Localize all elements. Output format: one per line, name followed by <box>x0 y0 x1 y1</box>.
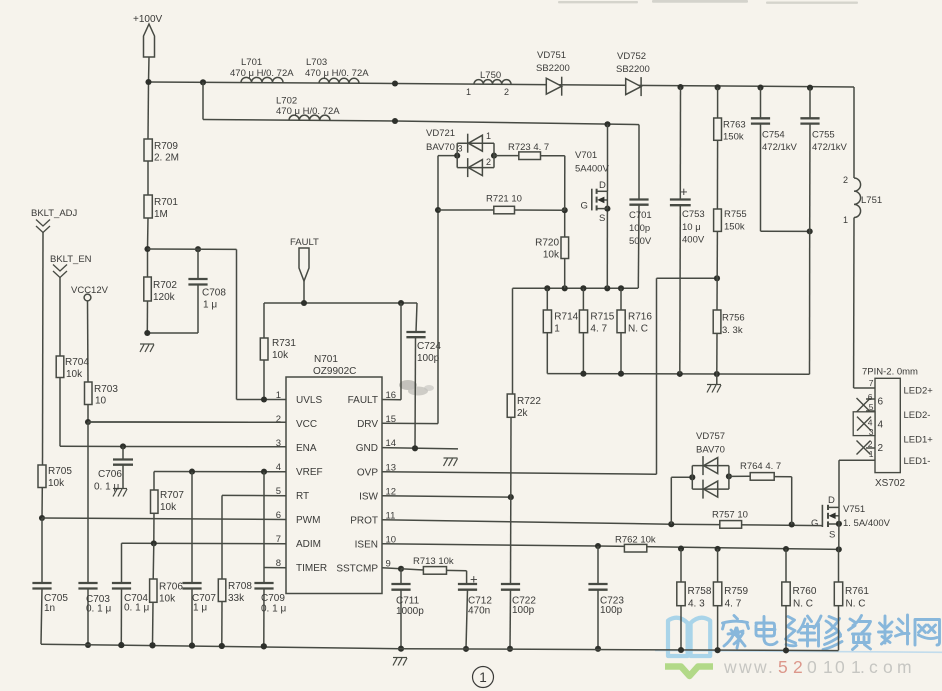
svg-text:R760: R760 <box>793 586 817 597</box>
svg-text:VCC: VCC <box>296 419 317 430</box>
svg-text:100p: 100p <box>417 353 440 364</box>
svg-text:C708: C708 <box>202 288 226 299</box>
svg-text:5: 5 <box>869 402 874 412</box>
svg-text:R762 10k: R762 10k <box>615 535 656 546</box>
svg-text:C711: C711 <box>396 596 420 607</box>
svg-text:4: 4 <box>878 420 884 431</box>
svg-text:VREF: VREF <box>296 467 323 478</box>
svg-text:3: 3 <box>869 427 874 437</box>
svg-text:FAULT: FAULT <box>348 395 378 406</box>
svg-text:LED1+: LED1+ <box>904 435 934 446</box>
svg-text:+: + <box>470 572 478 587</box>
svg-text:ISEN: ISEN <box>355 539 378 550</box>
svg-text:C706: C706 <box>98 469 122 480</box>
svg-text:3: 3 <box>458 144 463 154</box>
svg-text:1: 1 <box>869 449 874 459</box>
svg-text:BKLT_EN: BKLT_EN <box>50 254 92 265</box>
svg-text:N. C: N. C <box>628 324 648 335</box>
svg-text:FAULT: FAULT <box>290 237 319 248</box>
svg-text:10k: 10k <box>160 502 177 513</box>
svg-text:R714: R714 <box>554 312 578 323</box>
svg-text:R715: R715 <box>590 312 614 323</box>
svg-text:R722: R722 <box>517 396 541 407</box>
svg-text:10k: 10k <box>272 350 289 361</box>
svg-text:470 μ H/0. 72A: 470 μ H/0. 72A <box>230 68 294 79</box>
svg-text:UVLS: UVLS <box>296 395 322 406</box>
svg-text:4. 3: 4. 3 <box>688 599 705 610</box>
svg-text:+: + <box>680 184 688 199</box>
svg-text:G: G <box>811 518 818 529</box>
svg-text:472/1kV: 472/1kV <box>762 142 798 153</box>
svg-text:R761: R761 <box>845 586 869 597</box>
svg-text:N701: N701 <box>314 354 338 365</box>
svg-text:VD757: VD757 <box>696 431 725 442</box>
svg-text:R763: R763 <box>723 120 746 131</box>
svg-text:ENA: ENA <box>296 443 317 454</box>
svg-text:1 μ: 1 μ <box>203 300 217 311</box>
svg-text:1: 1 <box>479 670 487 685</box>
svg-text:7PIN-2. 0mm: 7PIN-2. 0mm <box>862 367 918 378</box>
svg-text:w: w <box>753 657 767 677</box>
svg-text:L750: L750 <box>480 70 501 81</box>
svg-text:400V: 400V <box>682 235 705 246</box>
svg-text:S: S <box>599 213 605 224</box>
svg-text:2: 2 <box>868 439 873 449</box>
svg-text:R723 4. 7: R723 4. 7 <box>508 142 549 153</box>
svg-text:ADIM: ADIM <box>296 539 321 550</box>
svg-text:0: 0 <box>807 657 817 677</box>
svg-text:0. 1 μ: 0. 1 μ <box>124 603 149 614</box>
svg-text:LED2+: LED2+ <box>904 386 934 397</box>
svg-text:DRV: DRV <box>357 419 378 430</box>
svg-text:+100V: +100V <box>133 14 163 25</box>
svg-text:1: 1 <box>486 131 491 141</box>
svg-text:472/1kV: 472/1kV <box>812 142 848 153</box>
svg-text:VD721: VD721 <box>426 128 455 139</box>
svg-text:VD751: VD751 <box>537 50 566 61</box>
svg-text:1 μ: 1 μ <box>193 603 207 614</box>
svg-text:4. 7: 4. 7 <box>725 599 742 610</box>
svg-text:4. 7: 4. 7 <box>590 324 607 335</box>
svg-text:1M: 1M <box>154 209 168 220</box>
svg-text:R704: R704 <box>65 357 89 368</box>
svg-text:5: 5 <box>778 657 788 677</box>
svg-text:7: 7 <box>869 378 874 388</box>
svg-text:VD752: VD752 <box>617 51 646 62</box>
svg-text:2: 2 <box>276 414 281 425</box>
svg-text:R709: R709 <box>154 141 178 152</box>
svg-text:R703: R703 <box>94 384 118 395</box>
svg-text:w: w <box>738 657 752 677</box>
svg-text:LED1-: LED1- <box>904 456 931 467</box>
svg-text:LED2-: LED2- <box>904 410 931 421</box>
svg-text:R705: R705 <box>48 466 72 477</box>
svg-text:1: 1 <box>466 87 471 97</box>
svg-text:2: 2 <box>793 657 803 677</box>
svg-text:1: 1 <box>554 324 560 335</box>
svg-text:D: D <box>828 495 835 506</box>
svg-text:10: 10 <box>95 396 107 407</box>
svg-text:R713 10k: R713 10k <box>413 556 454 567</box>
svg-text:OZ9902C: OZ9902C <box>313 366 356 377</box>
svg-text:100p: 100p <box>600 605 623 616</box>
svg-text:L703: L703 <box>306 57 327 68</box>
svg-text:R716: R716 <box>628 312 652 323</box>
svg-text:5A400V: 5A400V <box>575 164 609 175</box>
svg-text:6: 6 <box>878 397 884 408</box>
svg-text:PWM: PWM <box>296 515 320 526</box>
svg-text:10k: 10k <box>66 369 83 380</box>
svg-text:w: w <box>723 657 737 677</box>
svg-text:.: . <box>860 657 865 677</box>
svg-text:V701: V701 <box>575 150 597 161</box>
svg-text:SB2200: SB2200 <box>616 64 650 75</box>
svg-text:10k: 10k <box>543 250 560 261</box>
svg-text:0. 1 μ: 0. 1 μ <box>261 604 286 615</box>
svg-text:1: 1 <box>843 215 848 225</box>
svg-text:500V: 500V <box>629 236 652 247</box>
svg-text:C753: C753 <box>682 209 705 220</box>
svg-text:BAV70: BAV70 <box>426 142 455 153</box>
svg-text:R764 4. 7: R764 4. 7 <box>740 461 781 472</box>
svg-text:C754: C754 <box>762 130 785 141</box>
svg-text:2: 2 <box>878 443 884 454</box>
svg-text:R701: R701 <box>154 197 178 208</box>
svg-text:1n: 1n <box>44 603 55 614</box>
svg-text:C709: C709 <box>261 593 285 604</box>
svg-text:RT: RT <box>296 491 309 502</box>
svg-text:R755: R755 <box>724 209 747 220</box>
svg-text:10 μ: 10 μ <box>682 222 701 233</box>
svg-text:100p: 100p <box>512 605 535 616</box>
svg-text:150k: 150k <box>723 132 744 143</box>
svg-text:c: c <box>869 657 878 677</box>
svg-text:o: o <box>883 657 893 677</box>
svg-text:0. 1 μ: 0. 1 μ <box>86 604 111 615</box>
svg-text:3. 3k: 3. 3k <box>722 325 743 336</box>
svg-text:L701: L701 <box>241 57 262 68</box>
svg-text:3: 3 <box>276 438 281 449</box>
svg-text:N. C: N. C <box>846 599 866 610</box>
svg-text:D: D <box>599 180 606 191</box>
svg-text:R731: R731 <box>272 338 296 349</box>
svg-text:R759: R759 <box>724 586 748 597</box>
svg-text:OVP: OVP <box>357 467 378 478</box>
svg-text:R757 10: R757 10 <box>712 510 748 521</box>
svg-text:R707: R707 <box>160 490 184 501</box>
svg-text:L702: L702 <box>276 96 297 107</box>
svg-text:470 μ H/0. 72A: 470 μ H/0. 72A <box>276 106 340 117</box>
svg-text:R720: R720 <box>535 238 559 249</box>
svg-text:2. 2M: 2. 2M <box>154 153 179 164</box>
svg-text:2: 2 <box>843 175 848 185</box>
svg-text:R758: R758 <box>688 586 712 597</box>
svg-text:BKLT_ADJ: BKLT_ADJ <box>31 208 78 219</box>
svg-text:BAV70: BAV70 <box>696 445 725 456</box>
svg-text:470n: 470n <box>468 606 490 617</box>
svg-text:TIMER: TIMER <box>296 563 327 574</box>
svg-text:m: m <box>897 657 912 677</box>
svg-text:10k: 10k <box>159 594 176 605</box>
svg-text:R708: R708 <box>228 581 252 592</box>
svg-text:R721 10: R721 10 <box>486 194 522 205</box>
svg-text:C755: C755 <box>812 130 835 141</box>
svg-text:10k: 10k <box>48 478 65 489</box>
svg-text:33k: 33k <box>228 593 245 604</box>
svg-text:V751: V751 <box>843 504 865 515</box>
svg-text:L751: L751 <box>861 195 882 206</box>
svg-text:.: . <box>768 657 773 677</box>
svg-text:N. C: N. C <box>793 599 813 610</box>
svg-text:SB2200: SB2200 <box>536 63 570 74</box>
svg-text:SSTCMP: SSTCMP <box>336 563 378 574</box>
svg-text:S: S <box>829 530 835 541</box>
svg-text:R706: R706 <box>159 582 183 593</box>
svg-text:470 μ H/0. 72A: 470 μ H/0. 72A <box>305 68 369 79</box>
svg-text:120k: 120k <box>153 292 176 303</box>
svg-text:C701: C701 <box>629 210 652 221</box>
svg-text:0. 1 μ: 0. 1 μ <box>94 482 119 493</box>
svg-text:2: 2 <box>486 157 491 167</box>
svg-text:100p: 100p <box>629 223 650 234</box>
svg-text:XS702: XS702 <box>875 478 905 489</box>
svg-text:1. 5A/400V: 1. 5A/400V <box>843 518 891 529</box>
svg-text:R756: R756 <box>722 313 745 324</box>
svg-text:2k: 2k <box>517 408 529 419</box>
svg-text:2: 2 <box>504 87 509 97</box>
svg-text:150k: 150k <box>724 222 745 233</box>
svg-text:1: 1 <box>276 390 281 401</box>
svg-text:1000p: 1000p <box>396 606 424 617</box>
svg-text:G: G <box>581 201 588 212</box>
svg-text:1: 1 <box>823 657 833 677</box>
svg-text:0: 0 <box>835 657 845 677</box>
svg-text:6: 6 <box>868 392 873 402</box>
svg-text:ISW: ISW <box>359 491 378 502</box>
svg-text:R702: R702 <box>153 280 177 291</box>
svg-text:4: 4 <box>868 417 873 427</box>
svg-text:GND: GND <box>356 443 378 454</box>
svg-text:PROT: PROT <box>350 515 378 526</box>
